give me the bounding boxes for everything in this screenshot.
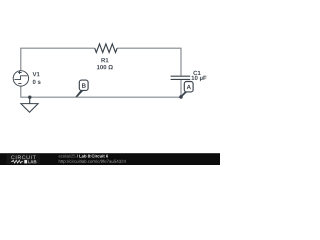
- resistor R1 zigzag body: [95, 44, 117, 53]
- voltage source V1 circle: [13, 71, 28, 86]
- junction dot at bottom-right corner node A: [179, 95, 183, 99]
- node flag B tail: [75, 90, 84, 97]
- node flag A box: [184, 82, 193, 92]
- node flag A letter: [187, 85, 191, 89]
- ground triangle symbol: [21, 104, 38, 113]
- capacitor C1 top plate: [171, 75, 191, 77]
- label C1 name: [193, 71, 200, 75]
- node flag A tail: [180, 92, 188, 97]
- node flag B box: [79, 80, 88, 90]
- V1 minus sign: [18, 83, 21, 85]
- footer logo word CIRCUIT: [11, 155, 35, 159]
- wire top-right segment from R1 through top-right corner down to C1 top plate: [117, 48, 181, 76]
- footer credit title: [77, 154, 108, 157]
- ground stem: [29, 97, 31, 103]
- capacitor C1 bottom plate: [171, 78, 191, 80]
- footer logo badge background: [7, 154, 41, 164]
- footer logo plug square: [24, 160, 27, 164]
- junction dot at ground tap on bottom rail: [28, 96, 31, 99]
- node flag B letter: [82, 83, 86, 87]
- footer black bar: [0, 153, 220, 165]
- footer logo resistor zigzag: [11, 160, 23, 163]
- wire from V1 bottom terminal and bottom rail across to node A: [21, 86, 181, 97]
- wire left vertical and top-left segment to R1: [21, 48, 95, 70]
- label R1 value 100 ohm: [97, 65, 113, 69]
- footer logo word LAB: [28, 160, 37, 163]
- footer credit username: [59, 154, 76, 157]
- label C1 value 10 uF: [192, 76, 207, 81]
- V1 step waveform: [14, 76, 27, 80]
- label V1 name: [33, 72, 40, 76]
- wire from C1 bottom plate down to node A corner: [180, 80, 182, 97]
- V1 plus sign: [18, 71, 21, 74]
- label V1 value 0 s: [33, 80, 41, 84]
- label R1 name: [101, 58, 108, 62]
- footer url line: [59, 160, 126, 164]
